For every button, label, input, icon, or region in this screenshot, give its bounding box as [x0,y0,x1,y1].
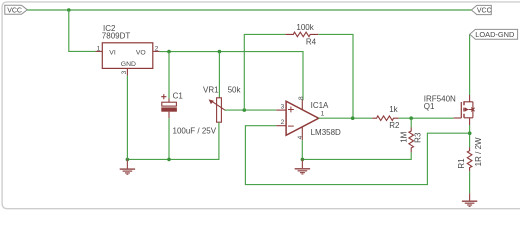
wire op-amp output [319,117,373,119]
svg-text:VO: VO [136,50,146,57]
wire C1 branch down [168,52,170,99]
ground symbol (op-amp) [295,159,310,174]
junction gate node [409,116,413,120]
svg-text:4: 4 [297,135,304,139]
transistor Q1 IRF540N [424,95,475,125]
svg-text:7809DT: 7809DT [102,32,131,41]
wire op-amp V- pin to ground [301,140,303,159]
svg-text:R1: R1 [457,158,466,169]
svg-text:LOAD-GND: LOAD-GND [475,30,514,39]
ground symbol (load, below R1) [462,193,477,206]
ground symbol (regulator) [120,159,135,174]
svg-text:1M: 1M [399,131,408,142]
wire VR1 branch down [218,52,220,98]
svg-text:2: 2 [155,45,159,52]
svg-text:C1: C1 [173,91,184,100]
junction non-inverting input node [243,108,247,112]
op-amp IC1A LM358D [276,96,341,140]
wire R4 right leg down to output [318,34,353,118]
svg-text:100k: 100k [296,23,314,32]
svg-text:R4: R4 [306,37,317,46]
junction C1 tap [167,50,171,54]
svg-text:VI: VI [109,50,116,57]
svg-text:1R / 2W: 1R / 2W [474,137,483,166]
svg-text:3: 3 [121,70,128,74]
svg-text:1: 1 [321,111,325,118]
svg-text:1k: 1k [389,105,398,114]
svg-text:3: 3 [281,104,285,111]
junction ground rail left [126,158,130,162]
svg-text:1: 1 [97,45,101,52]
resistor R1 1R/2W [457,137,483,171]
wire R2 to MOSFET gate [399,117,454,119]
wire R3 bottom to op-amp ground [302,152,411,159]
wire C1 to ground rail [168,118,170,159]
voltage regulator IC2 7809DT [96,24,160,76]
svg-text:50k: 50k [228,85,242,94]
junction output node [351,116,355,120]
svg-text:VCC: VCC [7,7,22,14]
wire drain up to LOAD-GND [469,34,471,95]
net flag VCC (left) [5,5,28,14]
svg-text:100uF / 25V: 100uF / 25V [173,127,217,136]
svg-text:LM358D: LM358D [311,128,341,137]
svg-text:GND: GND [121,61,136,68]
resistor R4 100k [285,23,318,46]
resistor R2 1k [372,105,400,130]
wire VO output rail to op-amp V+ [160,52,303,101]
svg-text:VCC: VCC [477,7,492,14]
wire VR1 bottom to ground rail [127,122,218,159]
wire R3 top leg [410,118,412,127]
wire R4 left leg [244,34,285,110]
junction source sense node [468,131,472,135]
wire VCC drop to regulator VI [69,10,96,51]
wire MOSFET source down to R1 [469,125,471,147]
wire VR1 wiper to op-amp non-inverting input [225,109,277,111]
junction node at VCC rail [67,8,71,12]
svg-text:VR1: VR1 [203,85,219,94]
wire top VCC rail [27,9,471,11]
junction VR1 tap [218,50,222,54]
junction op-amp ground node [301,158,305,162]
wire regulator GND pin down [126,76,128,160]
net flag VCC (right) [471,5,491,14]
junction C1 ground [167,158,171,162]
capacitor C1 100uF/25V [161,91,217,135]
potentiometer VR1 50k [203,85,241,122]
net flag LOAD-GND [470,29,518,39]
wire R1 to load ground [469,171,471,193]
wire feedback sense to op-amp inverting input [245,126,469,185]
svg-text:Q1: Q1 [424,102,435,111]
svg-text:R2: R2 [389,121,400,130]
resistor R3 1M [399,127,422,152]
svg-text:R3: R3 [414,132,423,143]
svg-text:2: 2 [281,119,285,126]
svg-text:8: 8 [298,96,305,100]
svg-text:IC1A: IC1A [311,101,329,110]
